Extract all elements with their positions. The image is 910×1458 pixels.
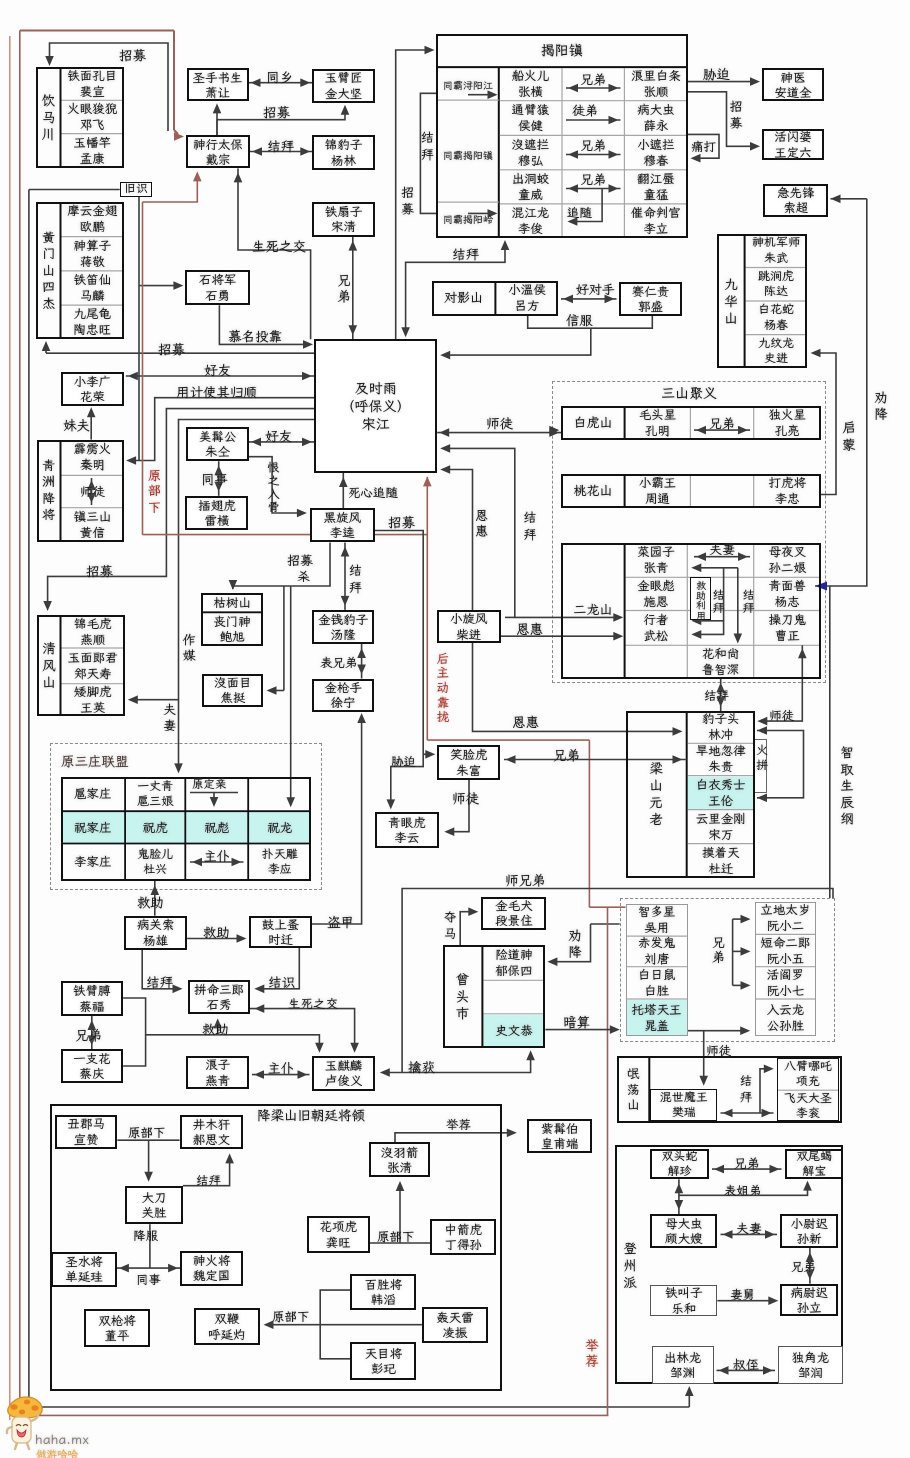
box Hao Siwen [180, 1115, 244, 1150]
box jiushi [120, 182, 153, 197]
label Yinmachuan [37, 67, 61, 168]
wire jiushi down [138, 197, 140, 461]
label zhaomu huangmenshan [158, 340, 185, 358]
box Wei Dingguo [180, 1251, 243, 1287]
wire quanjiang branch down [829, 586, 831, 898]
label Erlongshan [561, 543, 624, 679]
label yuanbuxia huyan [272, 1308, 310, 1325]
member Deng Fei [61, 100, 125, 133]
label haoyou huarong [204, 361, 231, 379]
member Li Zhong [754, 474, 821, 507]
label xinfu [566, 311, 593, 329]
wire quanjiang to Yubaosi [553, 924, 591, 962]
label biaoxiongdi [320, 654, 358, 671]
member Shi Jin [745, 335, 808, 369]
wire shengsi shixiu [250, 1009, 355, 1050]
wire jiebai xiangchong [760, 1069, 771, 1113]
label Lijiazhuang [61, 844, 126, 882]
wire shitu fanrui [703, 1031, 705, 1083]
label duoma [442, 910, 459, 941]
label jiebai guansheng [196, 1172, 221, 1189]
box Shan Yangui [51, 1252, 117, 1288]
label huopin [755, 743, 770, 773]
wire jiebai wusong [696, 568, 724, 621]
box jiuzhu liyong [690, 577, 711, 620]
box Suo Chao [763, 184, 828, 217]
group Jieyangzhen outer [436, 34, 688, 238]
watermark haha.mx mushroom [2, 1396, 132, 1458]
wire jieshi [258, 948, 299, 989]
member Liu Tang [626, 936, 688, 967]
group Liangshan yuanlao outer [626, 711, 755, 878]
member Bai Sheng [626, 967, 688, 999]
box Tang Long [312, 610, 374, 644]
member Fan Rui [650, 1089, 717, 1121]
wire jiebai zhangqing-luzhishen [696, 567, 738, 569]
group Baihushan row [561, 406, 821, 440]
box Zhang Qing2 [369, 1142, 431, 1177]
wire to zhangqing2 [399, 1184, 401, 1243]
box An Daoquan [762, 68, 825, 101]
wire xinfu to songjiang [445, 328, 591, 355]
label Hujiazhuang [61, 777, 126, 811]
label fuqi wangying [161, 703, 178, 735]
xiongdi zhangheng zhangshun [566, 87, 621, 89]
label shengsizhijiao [252, 237, 306, 255]
label zhaomu wangdingliu [728, 100, 745, 132]
zhupu duxing liying [190, 861, 244, 863]
label jiebai daizong [267, 137, 294, 155]
label zhaomu yinmachuan [119, 46, 146, 64]
wire haoyou huarong [126, 375, 314, 377]
label xiongdi zhangheng zhangshun [580, 71, 606, 88]
label jiebai songjiang v [522, 511, 539, 543]
box Sun Xin [780, 1214, 838, 1248]
wire jiushi left [29, 189, 120, 191]
member Huang Xin [61, 508, 125, 542]
wire xiongdi sunxin [809, 1248, 811, 1284]
red wire frame-top to Daizong [20, 30, 174, 32]
label biaojiedi [724, 1182, 762, 1199]
member Yu Baosi [482, 945, 545, 980]
wire xiangfu [149, 1224, 151, 1268]
label qimeng [840, 420, 858, 453]
label Kushushan [201, 593, 264, 612]
wire tongshi shan wei [117, 1267, 180, 1269]
label haoduishou [576, 281, 615, 298]
box Huyan Zhuo [194, 1308, 260, 1345]
wire ansuan [545, 1029, 615, 1031]
member Hu Sanniang [125, 777, 185, 811]
wire recruit Yinmachuan [50, 43, 169, 131]
wire shitu caozheng [760, 645, 802, 721]
member Zhang Qing [625, 543, 688, 578]
box Wang Dingliu [762, 129, 825, 161]
label shitu qinming [61, 478, 125, 505]
label shengsi shixiu [288, 995, 338, 1012]
wire jiushi long [28, 190, 30, 1408]
wire tongda loop [688, 134, 720, 158]
group Zhiqu dashed [620, 898, 835, 1042]
member Wang Lun [687, 776, 755, 810]
label jieshi [268, 973, 295, 991]
label Taohuashan [561, 474, 624, 507]
member Zhou Tong [625, 474, 691, 507]
group Erlongshan row [561, 543, 821, 679]
wire duoma [460, 912, 474, 945]
xiongdi muhong muchun [566, 154, 621, 156]
group Sanzhuang table [61, 777, 312, 881]
shuzhi zouyuan [717, 1369, 776, 1371]
member Zhu Hu [125, 811, 185, 843]
group Ruan stack [755, 902, 816, 1036]
label meifu [63, 416, 90, 434]
wire ruan bracket [732, 919, 734, 985]
label xiongdi caifu [75, 1026, 102, 1044]
member Chen Da [745, 268, 808, 302]
box Xiao Rang [187, 68, 249, 101]
xiongdi kongming [694, 429, 750, 431]
label tongxiang [266, 68, 293, 86]
wire biaojiedi [678, 1179, 680, 1214]
wire likui right down [375, 531, 424, 808]
wire shitu kongming [437, 432, 561, 434]
group Duiyingshan outer [432, 281, 559, 316]
label Duiyingshan [432, 281, 496, 316]
label zhupu duxing liying [204, 848, 230, 865]
wire quanjiang h924 [591, 923, 620, 925]
box Jiao Ting [202, 674, 263, 707]
wire henzhirugu [249, 457, 303, 513]
red wire to Wu Yong [589, 906, 625, 908]
label Qingfengshan [37, 615, 60, 716]
svg-text:haha.mx: haha.mx [35, 1430, 89, 1448]
member Song Wan [687, 810, 755, 844]
title Jieyangzhen [436, 34, 688, 67]
wire daizong-xiaorang [216, 107, 218, 135]
box Zou Run [778, 1346, 843, 1384]
wire xiongdi zhufu [504, 759, 687, 761]
member Tong Wei [499, 170, 562, 204]
group Huangmenshan outer [36, 202, 124, 339]
member Ruan Xiaowu [755, 934, 816, 966]
member Gongsun Sheng [755, 999, 816, 1036]
label jiebai jieyang2 [452, 245, 479, 263]
box Sun Li [780, 1284, 838, 1316]
member Du Qian [687, 844, 755, 878]
box Lu Junyi [312, 1056, 375, 1091]
wire haoyou zhutong [249, 441, 314, 443]
box Li Kui [310, 508, 375, 542]
label tudi [572, 102, 598, 119]
wire hantao bracket [320, 1290, 350, 1359]
label quanjiang bottom [566, 928, 584, 961]
label qijiu [730, 1286, 755, 1303]
box Lei Heng [185, 496, 248, 530]
label xiepo [703, 65, 730, 83]
member Shi En [625, 577, 688, 610]
label shitu fanrui [706, 1042, 731, 1059]
wire yuanbuxia huyan [266, 1324, 422, 1326]
label tongshi shan wei [136, 1271, 161, 1288]
red wire v427 [426, 477, 428, 740]
label enhui linchong [512, 713, 539, 731]
zhupu yanqing [252, 1074, 310, 1076]
title Sanshanjuyi [661, 384, 717, 402]
wire zuomei [179, 420, 315, 771]
member Zhu Biao [185, 811, 248, 843]
member Zhang Shun [624, 67, 687, 101]
label jiebai luzhishen [704, 687, 729, 704]
box Ling Zhen [422, 1307, 488, 1344]
label jiuzhuliyong [695, 580, 708, 620]
wire qinhuo [384, 1053, 531, 1073]
wire shixiongdi [402, 889, 833, 1073]
red wire v607 [607, 907, 609, 1415]
xiongdi tongwei tongmeng [566, 188, 621, 190]
member Ma Lin [61, 271, 125, 305]
box Hua Rong [61, 372, 125, 406]
label xiongdi muhong muchun [580, 137, 606, 154]
title jiang liangshan [257, 1106, 365, 1124]
wire muming toukao [219, 305, 305, 344]
label shitu kongming [486, 414, 513, 432]
wire jiebai jieyang bracket [420, 93, 436, 213]
red frame left inner [19, 31, 21, 1416]
label qinhuo [408, 1058, 435, 1076]
label tongba jieyangzhen [437, 140, 499, 172]
label xiongdi tongwei tongmeng [580, 171, 606, 188]
wire qimeng [817, 353, 836, 495]
label yuanbuxia gongwang [377, 1228, 415, 1245]
member Zhu Gui [687, 743, 755, 775]
label zhaomu jieyang [399, 186, 416, 218]
label xiongdi xiezhen [734, 1155, 760, 1172]
box Zou Yuan [652, 1346, 714, 1384]
member Lin Chong [687, 711, 755, 743]
group Jiang Liangshan outer [50, 1104, 502, 1391]
member Wu Song [625, 611, 688, 646]
label yuandingqin [192, 777, 227, 792]
label yuanbuxia xuanzan [128, 1124, 166, 1141]
label sixinzhuisui [348, 484, 398, 501]
label Liangshan yuanlao [626, 711, 687, 878]
group Wu Yong stack [626, 904, 688, 1037]
box Xie Bao [785, 1149, 843, 1180]
wire tongba3 [468, 212, 492, 214]
box Jin Dajian [312, 69, 374, 103]
wire zhaomu jieyang [396, 50, 428, 339]
label Dengzhoupai [617, 1220, 643, 1310]
box Huangfu Duan [527, 1119, 592, 1152]
label jiebai2 v [741, 588, 756, 614]
label zhaomu jindajian [263, 103, 290, 121]
member Mu Chun [624, 135, 687, 169]
member Tao Zongwang [61, 305, 125, 339]
wire shitu qinming [91, 478, 93, 505]
wire jiebai songjiang wusong [445, 448, 619, 617]
label henzhirugu [266, 461, 281, 513]
wire sha zhulong [290, 586, 292, 803]
wire bottom to Zou Yuan [29, 1406, 689, 1408]
member Li Jun [499, 204, 562, 238]
cyan cell Shi Wengong [483, 1015, 544, 1047]
member Mu Hong [499, 135, 562, 169]
wire jiebai luzhishen [720, 679, 722, 712]
fuqi gudasao [721, 1233, 778, 1235]
box Peng Qi [350, 1342, 416, 1379]
wire biaoxiongdi [361, 644, 363, 679]
label enhui chaijin [516, 620, 543, 638]
box Shi Xiu [188, 980, 250, 1014]
box Guo Sheng [619, 282, 682, 316]
wire daojia [312, 716, 362, 924]
label jiuzhu up [137, 893, 164, 911]
wire qijiu [717, 1300, 774, 1302]
label zhaomu left small [287, 552, 313, 569]
box Gu Dasao [650, 1214, 717, 1248]
label xiongdi kongming [709, 415, 735, 432]
wire jiebai likui tanglong [344, 543, 346, 610]
label Jiuhuashan [717, 234, 744, 368]
wire to gongsunsheng [688, 1030, 742, 1032]
wire shengsizhijiao [238, 168, 311, 339]
wire biaojiedi h [679, 1183, 808, 1195]
label haoyou zhutong [265, 427, 292, 445]
box Gong Wang [307, 1216, 370, 1253]
label jiebai likui [347, 564, 364, 596]
wire zhaomu wangdingliu [688, 92, 754, 147]
label fuqi gudasao [736, 1220, 762, 1237]
wire jiuzhu yangxiong up [154, 881, 156, 916]
wire shitu zhufu liyun [448, 780, 469, 832]
wire yuanbuxia xuanzan [117, 1139, 179, 1141]
member Ruan Xiaoqi [755, 967, 816, 999]
box Xuan Zan [55, 1115, 117, 1149]
label zhuisui [567, 204, 592, 221]
label Qingzhou [37, 440, 61, 542]
label enhui v [473, 508, 490, 540]
cyan cell Chao Gai [627, 1000, 687, 1035]
wire zhaomu qingfengshan [48, 409, 314, 608]
box Cai Fu [61, 981, 124, 1016]
label jiebai fanrui [738, 1074, 755, 1105]
box Yang Xiong [124, 916, 187, 950]
member Zheng Tianshou [61, 648, 126, 684]
group Taohuashan row [561, 474, 821, 507]
wire zhaomu jindajian [217, 108, 345, 135]
box Dong Ping [84, 1309, 150, 1346]
member Yang Zhi [754, 577, 821, 610]
member Shi Wengong [482, 1014, 545, 1048]
wire jujian [395, 1133, 512, 1143]
label zhaomu likui [388, 513, 415, 531]
wire tongba1 [468, 94, 492, 96]
wire yongji guishun [131, 398, 314, 461]
red frame left outer [9, 36, 11, 1420]
box Dai Zong [186, 135, 250, 168]
red wire v1 [142, 202, 144, 535]
group Zengtoushi outer [443, 945, 546, 1048]
wire tudi houjian [566, 119, 621, 121]
wire tongshi [218, 461, 220, 496]
box Zhu Fu [437, 745, 500, 780]
label zhiqu shengchengang [838, 745, 856, 828]
label jiebai1 v [711, 588, 726, 614]
member Qin Ming [61, 440, 125, 476]
member Zhu Long [248, 811, 311, 843]
wire tongxiang [249, 82, 313, 84]
box Han Tao [350, 1274, 416, 1311]
box Shi Yong [185, 270, 250, 305]
box Li Yun [375, 812, 439, 847]
box Guan Sheng [125, 1186, 183, 1225]
wire quanjiang long [815, 199, 867, 586]
red wire v589 [588, 740, 590, 907]
box Ding Desun [430, 1219, 496, 1256]
group Qingfengshan outer [37, 615, 125, 716]
member Tong Meng [624, 170, 687, 204]
label xiongdi songqing [335, 272, 353, 305]
red wire to daizong [143, 174, 198, 202]
label quanjiang top [872, 390, 890, 423]
label tongda [691, 138, 716, 155]
label Zhujiazhuang [61, 811, 126, 843]
group Kushushan outer [201, 593, 264, 646]
label tongshi [201, 470, 228, 488]
wire to guansheng [148, 1140, 150, 1178]
label shitu zhufu [452, 789, 479, 807]
member Xue Yong [624, 101, 687, 136]
box Xie Zhen [650, 1149, 709, 1180]
red wire h534 [143, 534, 428, 536]
group Sanzhuang dashed [50, 743, 322, 890]
wire xiongdi caifu [91, 1016, 93, 1049]
wire jiebai yangxiong [142, 950, 178, 989]
group Xiang Chong Li Gun [777, 1058, 839, 1122]
box Chai Jin [437, 610, 501, 644]
member Li Li [624, 204, 687, 238]
label tongba xunyangjiang [437, 72, 499, 100]
wire enhui chaijin [501, 635, 619, 637]
member Pei Xuan [61, 67, 125, 100]
member Kong Liang [754, 406, 821, 440]
member Zhang Heng [499, 67, 562, 101]
label jiuzhu shiqian [203, 923, 230, 941]
label zuomei [181, 633, 198, 665]
xiongdi xiezhen [712, 1168, 782, 1170]
label xiongdi sunxin [791, 1258, 816, 1275]
member Lv Fang [495, 281, 558, 316]
label jiebai yangxiong [146, 973, 173, 991]
label ansuan [563, 1013, 590, 1031]
label tongba jieyangling [437, 206, 499, 234]
group Jiuhuashan outer [717, 234, 807, 368]
label Mangdangshan [617, 1056, 649, 1123]
label daojia [327, 913, 354, 931]
box Le He [650, 1285, 717, 1316]
wire huopin [757, 731, 804, 798]
label shixiongdi [505, 871, 546, 889]
label Zengtoushi [443, 945, 483, 1048]
label yongji [176, 383, 257, 401]
group Sanshanjuyi dashed [552, 381, 825, 683]
member Hou Jian [499, 101, 562, 136]
member Cao Zheng [754, 611, 821, 646]
wire fuqi wangying [131, 699, 179, 701]
label jujian red [583, 1337, 601, 1370]
wire zhuisui [572, 189, 602, 222]
